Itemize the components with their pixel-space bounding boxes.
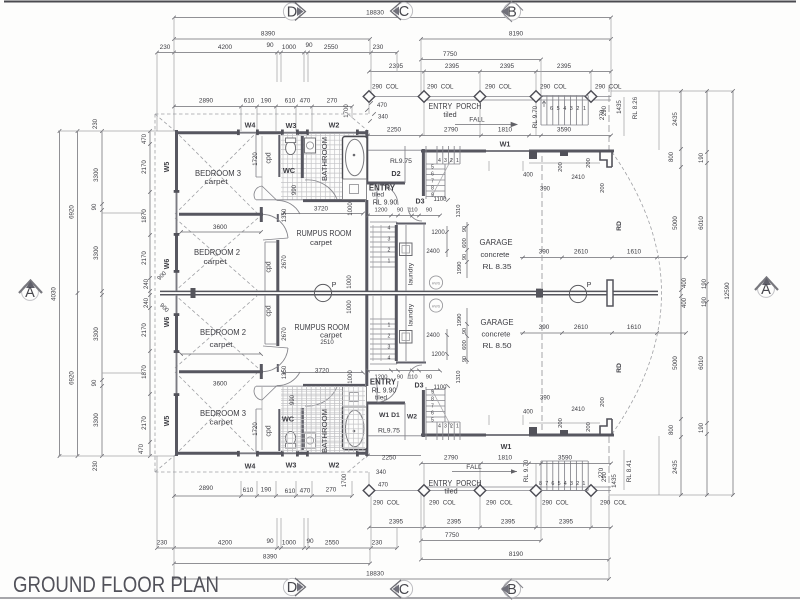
dimension 8390 bottom (172, 562, 372, 566)
svg-text:1990: 1990 (457, 262, 463, 275)
svg-text:1: 1 (583, 106, 586, 112)
party wall double line (160, 291, 658, 294)
svg-text:2790: 2790 (444, 127, 459, 134)
svg-text:W2: W2 (407, 414, 417, 421)
svg-text:1100: 1100 (434, 385, 448, 391)
svg-text:90: 90 (426, 375, 432, 381)
fall arrow top (455, 122, 517, 126)
porch edge line bottom (369, 487, 611, 491)
svg-text:18830: 18830 (366, 571, 384, 578)
svg-text:18830: 18830 (366, 10, 384, 17)
svg-text:240: 240 (144, 278, 150, 289)
svg-text:RUMPUS ROOM: RUMPUS ROOM (297, 229, 352, 238)
svg-text:270: 270 (327, 98, 338, 105)
svg-text:2170: 2170 (141, 323, 148, 337)
bottom scan border line (0, 597, 800, 599)
HWS units (429, 276, 442, 289)
svg-text:W1 D1: W1 D1 (379, 412, 400, 419)
svg-text:1610: 1610 (627, 324, 642, 331)
svg-text:cpd: cpd (266, 261, 273, 272)
svg-text:8390: 8390 (261, 31, 276, 38)
svg-text:W5: W5 (164, 162, 171, 173)
svg-text:1: 1 (456, 158, 459, 164)
hall door arc upper (277, 200, 300, 214)
svg-text:W2: W2 (329, 121, 340, 130)
svg-text:tiled: tiled (443, 110, 456, 119)
svg-text:4030: 4030 (51, 287, 58, 301)
svg-text:W3: W3 (286, 121, 297, 130)
svg-text:B: B (507, 5, 517, 21)
svg-text:C: C (399, 582, 409, 598)
svg-text:6: 6 (551, 481, 554, 487)
svg-text:2400: 2400 (426, 249, 440, 255)
witness lines top (157, 18, 611, 136)
svg-text:610: 610 (285, 98, 296, 105)
svg-text:190: 190 (702, 278, 708, 289)
driveway dims top (520, 256, 688, 260)
garage interior dashed centreline (541, 156, 543, 291)
grid bubble D (283, 3, 300, 20)
svg-text:1100: 1100 (434, 197, 448, 203)
pier circle P left (314, 284, 331, 301)
svg-text:1200: 1200 (375, 208, 388, 214)
svg-text:6: 6 (431, 411, 434, 417)
svg-text:tiled: tiled (444, 487, 457, 496)
svg-text:7: 7 (545, 481, 548, 487)
svg-text:290 COL: 290 COL (373, 500, 400, 507)
svg-text:RL9.75: RL9.75 (390, 158, 412, 165)
svg-text:A: A (761, 282, 771, 298)
svg-text:190: 190 (699, 152, 705, 163)
svg-text:D3: D3 (416, 199, 425, 206)
svg-text:2: 2 (388, 334, 391, 340)
svg-text:carpet: carpet (204, 257, 227, 266)
svg-text:5000: 5000 (672, 216, 679, 230)
svg-text:3: 3 (388, 345, 391, 351)
svg-text:90: 90 (305, 42, 313, 49)
svg-text:GARAGE: GARAGE (480, 237, 513, 247)
rumpus right wall / entry left (365, 200, 368, 291)
svg-text:2435: 2435 (672, 112, 679, 126)
svg-text:290 COL: 290 COL (372, 84, 399, 91)
svg-text:2: 2 (576, 106, 579, 112)
garage corner pier (600, 151, 612, 167)
laundry walls (395, 225, 398, 291)
svg-text:4: 4 (438, 424, 441, 430)
right dimension chain 2435/800/5000 (679, 89, 683, 497)
svg-text:1720: 1720 (253, 152, 259, 166)
svg-text:8390: 8390 (263, 554, 278, 561)
svg-text:470: 470 (377, 103, 388, 109)
svg-text:5: 5 (431, 165, 434, 171)
svg-text:90: 90 (266, 42, 274, 49)
dashed roof hips bedroom3 (155, 114, 368, 214)
svg-text:D: D (287, 5, 297, 21)
svg-text:90: 90 (92, 379, 98, 386)
svg-text:400: 400 (682, 297, 688, 308)
svg-text:230: 230 (372, 540, 383, 547)
svg-text:3600: 3600 (213, 381, 228, 388)
svg-text:GARAGE: GARAGE (481, 317, 514, 327)
svg-text:1435: 1435 (611, 474, 618, 488)
svg-text:2670: 2670 (282, 327, 288, 341)
svg-text:laundry: laundry (408, 303, 415, 326)
svg-text:3300: 3300 (93, 413, 100, 427)
dimension 2790/1810/3590 top (419, 134, 613, 138)
svg-text:190: 190 (261, 487, 272, 494)
svg-text:290 COL: 290 COL (485, 84, 512, 91)
dimension 7750 bottom (419, 539, 543, 543)
svg-text:W2: W2 (329, 461, 340, 470)
overall dimension 18830 bottom (172, 577, 611, 581)
entry stairs upper flight (426, 146, 460, 199)
porch columns (diamonds) top (363, 91, 375, 103)
entry door D2 swing (377, 184, 398, 205)
svg-text:390: 390 (540, 396, 551, 402)
garage pier dims linework (489, 161, 600, 171)
svg-text:1000: 1000 (347, 300, 353, 314)
svg-text:470: 470 (139, 443, 145, 454)
svg-text:2170: 2170 (141, 251, 148, 265)
dimension 2250 bottom (366, 454, 421, 458)
svg-text:290: 290 (602, 105, 608, 116)
svg-text:90: 90 (306, 538, 314, 545)
shower (343, 179, 367, 200)
svg-text:RD: RD (616, 363, 623, 373)
svg-text:800: 800 (669, 424, 675, 435)
window W6 left (176, 272, 178, 291)
svg-text:1435: 1435 (616, 100, 623, 114)
svg-text:W3: W3 (286, 461, 297, 470)
svg-text:1350: 1350 (282, 365, 288, 379)
1200/90 entry dims (366, 214, 442, 218)
svg-text:5000: 5000 (672, 356, 679, 370)
svg-text:WC: WC (283, 166, 296, 175)
svg-text:230: 230 (373, 44, 384, 51)
svg-text:230: 230 (93, 118, 99, 129)
left horizontal stub dims (58, 131, 175, 456)
witness lines bottom (157, 456, 609, 579)
svg-text:290 COL: 290 COL (600, 500, 627, 507)
svg-text:7: 7 (431, 404, 434, 410)
stair break diagonal (432, 158, 452, 196)
svg-text:A: A (25, 285, 35, 301)
svg-text:230: 230 (160, 44, 171, 51)
left dimension 4030 (58, 129, 62, 458)
svg-text:3300: 3300 (93, 246, 100, 260)
svg-text:8: 8 (431, 186, 434, 192)
svg-text:1000: 1000 (282, 540, 297, 547)
svg-text:290: 290 (602, 471, 608, 482)
svg-text:W6: W6 (164, 317, 171, 328)
internal witness marks entry (445, 198, 469, 278)
svg-text:3: 3 (388, 237, 391, 243)
svg-text:RL 9.90: RL 9.90 (373, 200, 398, 207)
svg-text:2395: 2395 (445, 63, 460, 70)
svg-text:2250: 2250 (382, 455, 397, 462)
svg-text:concrete: concrete (481, 250, 510, 259)
svg-text:2395: 2395 (559, 519, 574, 526)
svg-text:1350: 1350 (282, 208, 288, 222)
bedroom2 cpd (276, 240, 279, 291)
svg-text:230: 230 (157, 540, 168, 547)
svg-text:C: C (399, 4, 409, 20)
svg-text:1310: 1310 (456, 371, 462, 384)
svg-text:D2: D2 (391, 169, 400, 178)
svg-text:3600: 3600 (213, 224, 228, 231)
right dimension chain 6010/190 (705, 89, 709, 497)
svg-text:2395: 2395 (447, 519, 462, 526)
right dimension 12590 (731, 89, 735, 497)
svg-text:4: 4 (563, 106, 566, 112)
porch edge line top (369, 97, 611, 101)
bathroom tiled floor bottom (281, 386, 368, 452)
svg-text:carpet: carpet (210, 340, 233, 349)
svg-text:1: 1 (388, 323, 391, 329)
svg-text:1610: 1610 (627, 249, 642, 256)
svg-text:RL 8.50: RL 8.50 (483, 341, 512, 350)
svg-text:3590: 3590 (557, 127, 572, 134)
svg-text:HWS: HWS (432, 305, 441, 309)
svg-text:240: 240 (144, 297, 150, 308)
svg-text:200: 200 (600, 397, 606, 407)
svg-text:5: 5 (558, 481, 561, 487)
svg-text:400: 400 (682, 277, 688, 288)
cpd interior (261, 136, 263, 199)
svg-text:W1: W1 (501, 442, 512, 451)
building linework top dwelling (155, 114, 614, 291)
svg-text:470: 470 (300, 488, 311, 495)
svg-text:470: 470 (300, 98, 311, 105)
svg-text:HWS: HWS (432, 282, 441, 286)
dimension row 2890/610/190/610/470/270 top (172, 105, 354, 109)
svg-text:290 COL: 290 COL (427, 84, 454, 91)
svg-text:6: 6 (550, 106, 553, 112)
svg-text:tiled: tiled (375, 395, 387, 402)
dimension 2790/1810/3590 bottom (419, 462, 613, 466)
svg-text:7750: 7750 (443, 51, 458, 58)
left dimension 470/2170/1870/2170/240 chains (148, 129, 152, 458)
svg-text:RL 8.26: RL 8.26 (632, 96, 639, 119)
svg-text:1000: 1000 (348, 202, 354, 216)
svg-text:390: 390 (539, 249, 550, 256)
svg-text:3300: 3300 (93, 168, 100, 182)
svg-text:470: 470 (378, 483, 389, 489)
dashed roof overhang line (155, 114, 368, 291)
svg-text:2890: 2890 (199, 485, 214, 492)
svg-text:2395: 2395 (389, 519, 404, 526)
dimension row 2890/610/190/610/470/270 bottom (172, 494, 354, 498)
svg-text:carpet: carpet (205, 177, 228, 186)
bedroom divider wall (179, 207, 263, 222)
svg-text:1200: 1200 (375, 375, 388, 381)
svg-text:3720: 3720 (314, 206, 329, 213)
left exterior wall (175, 130, 178, 272)
svg-text:90: 90 (462, 328, 468, 334)
bath tub (343, 137, 368, 181)
svg-text:1: 1 (456, 424, 459, 430)
svg-text:RL 8.41: RL 8.41 (626, 459, 633, 482)
svg-text:1700: 1700 (344, 104, 350, 118)
dimension 2250 top (366, 134, 421, 138)
toilet (286, 141, 296, 154)
svg-text:1870: 1870 (141, 365, 148, 379)
svg-text:1200: 1200 (431, 230, 445, 236)
svg-text:4: 4 (438, 158, 441, 164)
hall stairs to rumpus (370, 222, 397, 267)
svg-text:2510: 2510 (320, 340, 334, 346)
svg-text:WC: WC (282, 415, 295, 424)
top scan border line (4, 1, 796, 3)
svg-text:cpd: cpd (266, 425, 273, 436)
driveway dims bottom (520, 331, 688, 335)
svg-text:3: 3 (444, 424, 447, 430)
svg-text:6010: 6010 (698, 356, 705, 370)
3720 internal dim (281, 212, 365, 216)
svg-text:200: 200 (586, 422, 592, 432)
svg-text:290 COL: 290 COL (542, 500, 569, 507)
svg-text:D: D (287, 580, 297, 596)
right chain tie lines (609, 91, 733, 495)
svg-text:2890: 2890 (199, 98, 214, 105)
dimension row 230/4200/90/1000/90/2550/230 bottom (155, 546, 399, 550)
svg-text:1000: 1000 (347, 275, 353, 289)
kitchen bench strip left of laundry (373, 225, 381, 291)
window W5 left (176, 192, 178, 235)
svg-text:290 COL: 290 COL (595, 84, 622, 91)
svg-text:2790: 2790 (444, 455, 459, 462)
dimension row 230/4200/90/1000/90/2550/230 top (155, 51, 399, 55)
svg-text:1000: 1000 (348, 370, 354, 384)
svg-text:200: 200 (558, 162, 564, 172)
svg-text:2250: 2250 (387, 127, 402, 134)
window W2 (308, 132, 358, 134)
svg-text:P: P (587, 280, 592, 289)
svg-text:RL 8.35: RL 8.35 (483, 262, 512, 271)
svg-text:laundry: laundry (408, 262, 415, 285)
svg-text:carpet: carpet (210, 418, 233, 427)
svg-text:390: 390 (540, 187, 551, 193)
svg-text:6920: 6920 (69, 205, 76, 219)
svg-text:2170: 2170 (141, 416, 148, 430)
bathroom door arc (305, 180, 337, 199)
window W4 (239, 132, 258, 134)
svg-text:8190: 8190 (509, 551, 524, 558)
grid bubble B (503, 3, 520, 20)
svg-text:340: 340 (376, 470, 387, 476)
svg-text:P: P (332, 280, 337, 289)
dashed driveway arc (612, 152, 662, 434)
svg-text:6920: 6920 (69, 371, 76, 385)
svg-text:7: 7 (431, 179, 434, 185)
svg-text:8: 8 (431, 397, 434, 403)
svg-text:2: 2 (450, 424, 453, 430)
svg-text:1200: 1200 (431, 352, 445, 358)
svg-text:RL 9.70: RL 9.70 (532, 105, 539, 128)
dimension 8190 bottom (419, 558, 611, 562)
svg-text:2395: 2395 (557, 63, 572, 70)
svg-text:290 COL: 290 COL (486, 500, 513, 507)
svg-text:470: 470 (142, 133, 148, 144)
svg-text:3: 3 (570, 106, 573, 112)
svg-text:800: 800 (669, 151, 675, 162)
rumpus left wall lower (277, 214, 279, 222)
bathroom tiled floor (281, 134, 368, 201)
svg-text:990: 990 (290, 394, 296, 405)
svg-text:cpd: cpd (266, 152, 273, 163)
svg-text:230: 230 (93, 460, 99, 471)
svg-text:3: 3 (570, 481, 573, 487)
front (top) exterior wall with windows W4 W3 W2 (175, 131, 368, 134)
svg-text:90: 90 (462, 254, 468, 260)
svg-text:1: 1 (582, 481, 585, 487)
svg-text:290 COL: 290 COL (540, 84, 567, 91)
svg-text:2410: 2410 (571, 175, 585, 181)
svg-text:2670: 2670 (282, 255, 288, 269)
porch floor edge to garage (368, 146, 421, 183)
svg-text:4: 4 (388, 226, 391, 232)
svg-text:2610: 2610 (574, 249, 589, 256)
svg-text:2550: 2550 (324, 44, 339, 51)
svg-text:400: 400 (523, 410, 534, 416)
svg-text:1990: 1990 (457, 314, 463, 327)
svg-text:90: 90 (266, 538, 274, 545)
svg-text:600: 600 (462, 340, 468, 350)
svg-text:6: 6 (431, 172, 434, 178)
wc / cpd / bathroom interior walls (278, 135, 280, 177)
3600 internal dim (179, 230, 263, 234)
porch steps bottom (541, 461, 588, 491)
svg-text:2550: 2550 (325, 540, 340, 547)
svg-text:3300: 3300 (93, 327, 100, 341)
svg-text:4200: 4200 (218, 44, 233, 51)
svg-text:90: 90 (462, 226, 468, 232)
svg-text:RD: RD (616, 221, 623, 231)
garage front wall right part with piers (529, 150, 614, 153)
dimension row 2395 bottom (367, 526, 613, 530)
svg-text:RL 9.70: RL 9.70 (523, 459, 530, 482)
svg-text:BEDROOM 2: BEDROOM 2 (200, 328, 246, 337)
bath right exterior wall (365, 130, 368, 183)
svg-text:2: 2 (388, 248, 391, 254)
svg-text:2435: 2435 (672, 460, 679, 474)
svg-text:5: 5 (431, 418, 434, 424)
svg-text:9: 9 (431, 390, 434, 396)
svg-text:FALL: FALL (469, 117, 485, 124)
svg-text:1700: 1700 (342, 473, 348, 487)
svg-text:1: 1 (388, 259, 391, 265)
building linework bottom dwelling (mirror) (155, 295, 614, 472)
svg-text:2395: 2395 (389, 63, 404, 70)
dimension 7750 top (419, 58, 543, 62)
svg-text:270: 270 (326, 487, 337, 494)
svg-text:RL9.75: RL9.75 (378, 428, 400, 435)
svg-text:5: 5 (557, 106, 560, 112)
laundry tub (400, 243, 413, 256)
svg-text:7750: 7750 (445, 532, 460, 539)
svg-text:12590: 12590 (724, 282, 731, 300)
svg-text:1720: 1720 (253, 422, 259, 436)
svg-text:2400: 2400 (426, 333, 440, 339)
garage door window W1 (486, 150, 529, 152)
svg-text:1310: 1310 (456, 205, 462, 218)
svg-text:610: 610 (243, 487, 254, 494)
svg-text:8: 8 (539, 481, 542, 487)
dimension 8390 top (172, 37, 372, 41)
fall arrow bottom (452, 471, 517, 473)
svg-text:4: 4 (388, 356, 391, 362)
svg-text:6010: 6010 (698, 216, 705, 230)
